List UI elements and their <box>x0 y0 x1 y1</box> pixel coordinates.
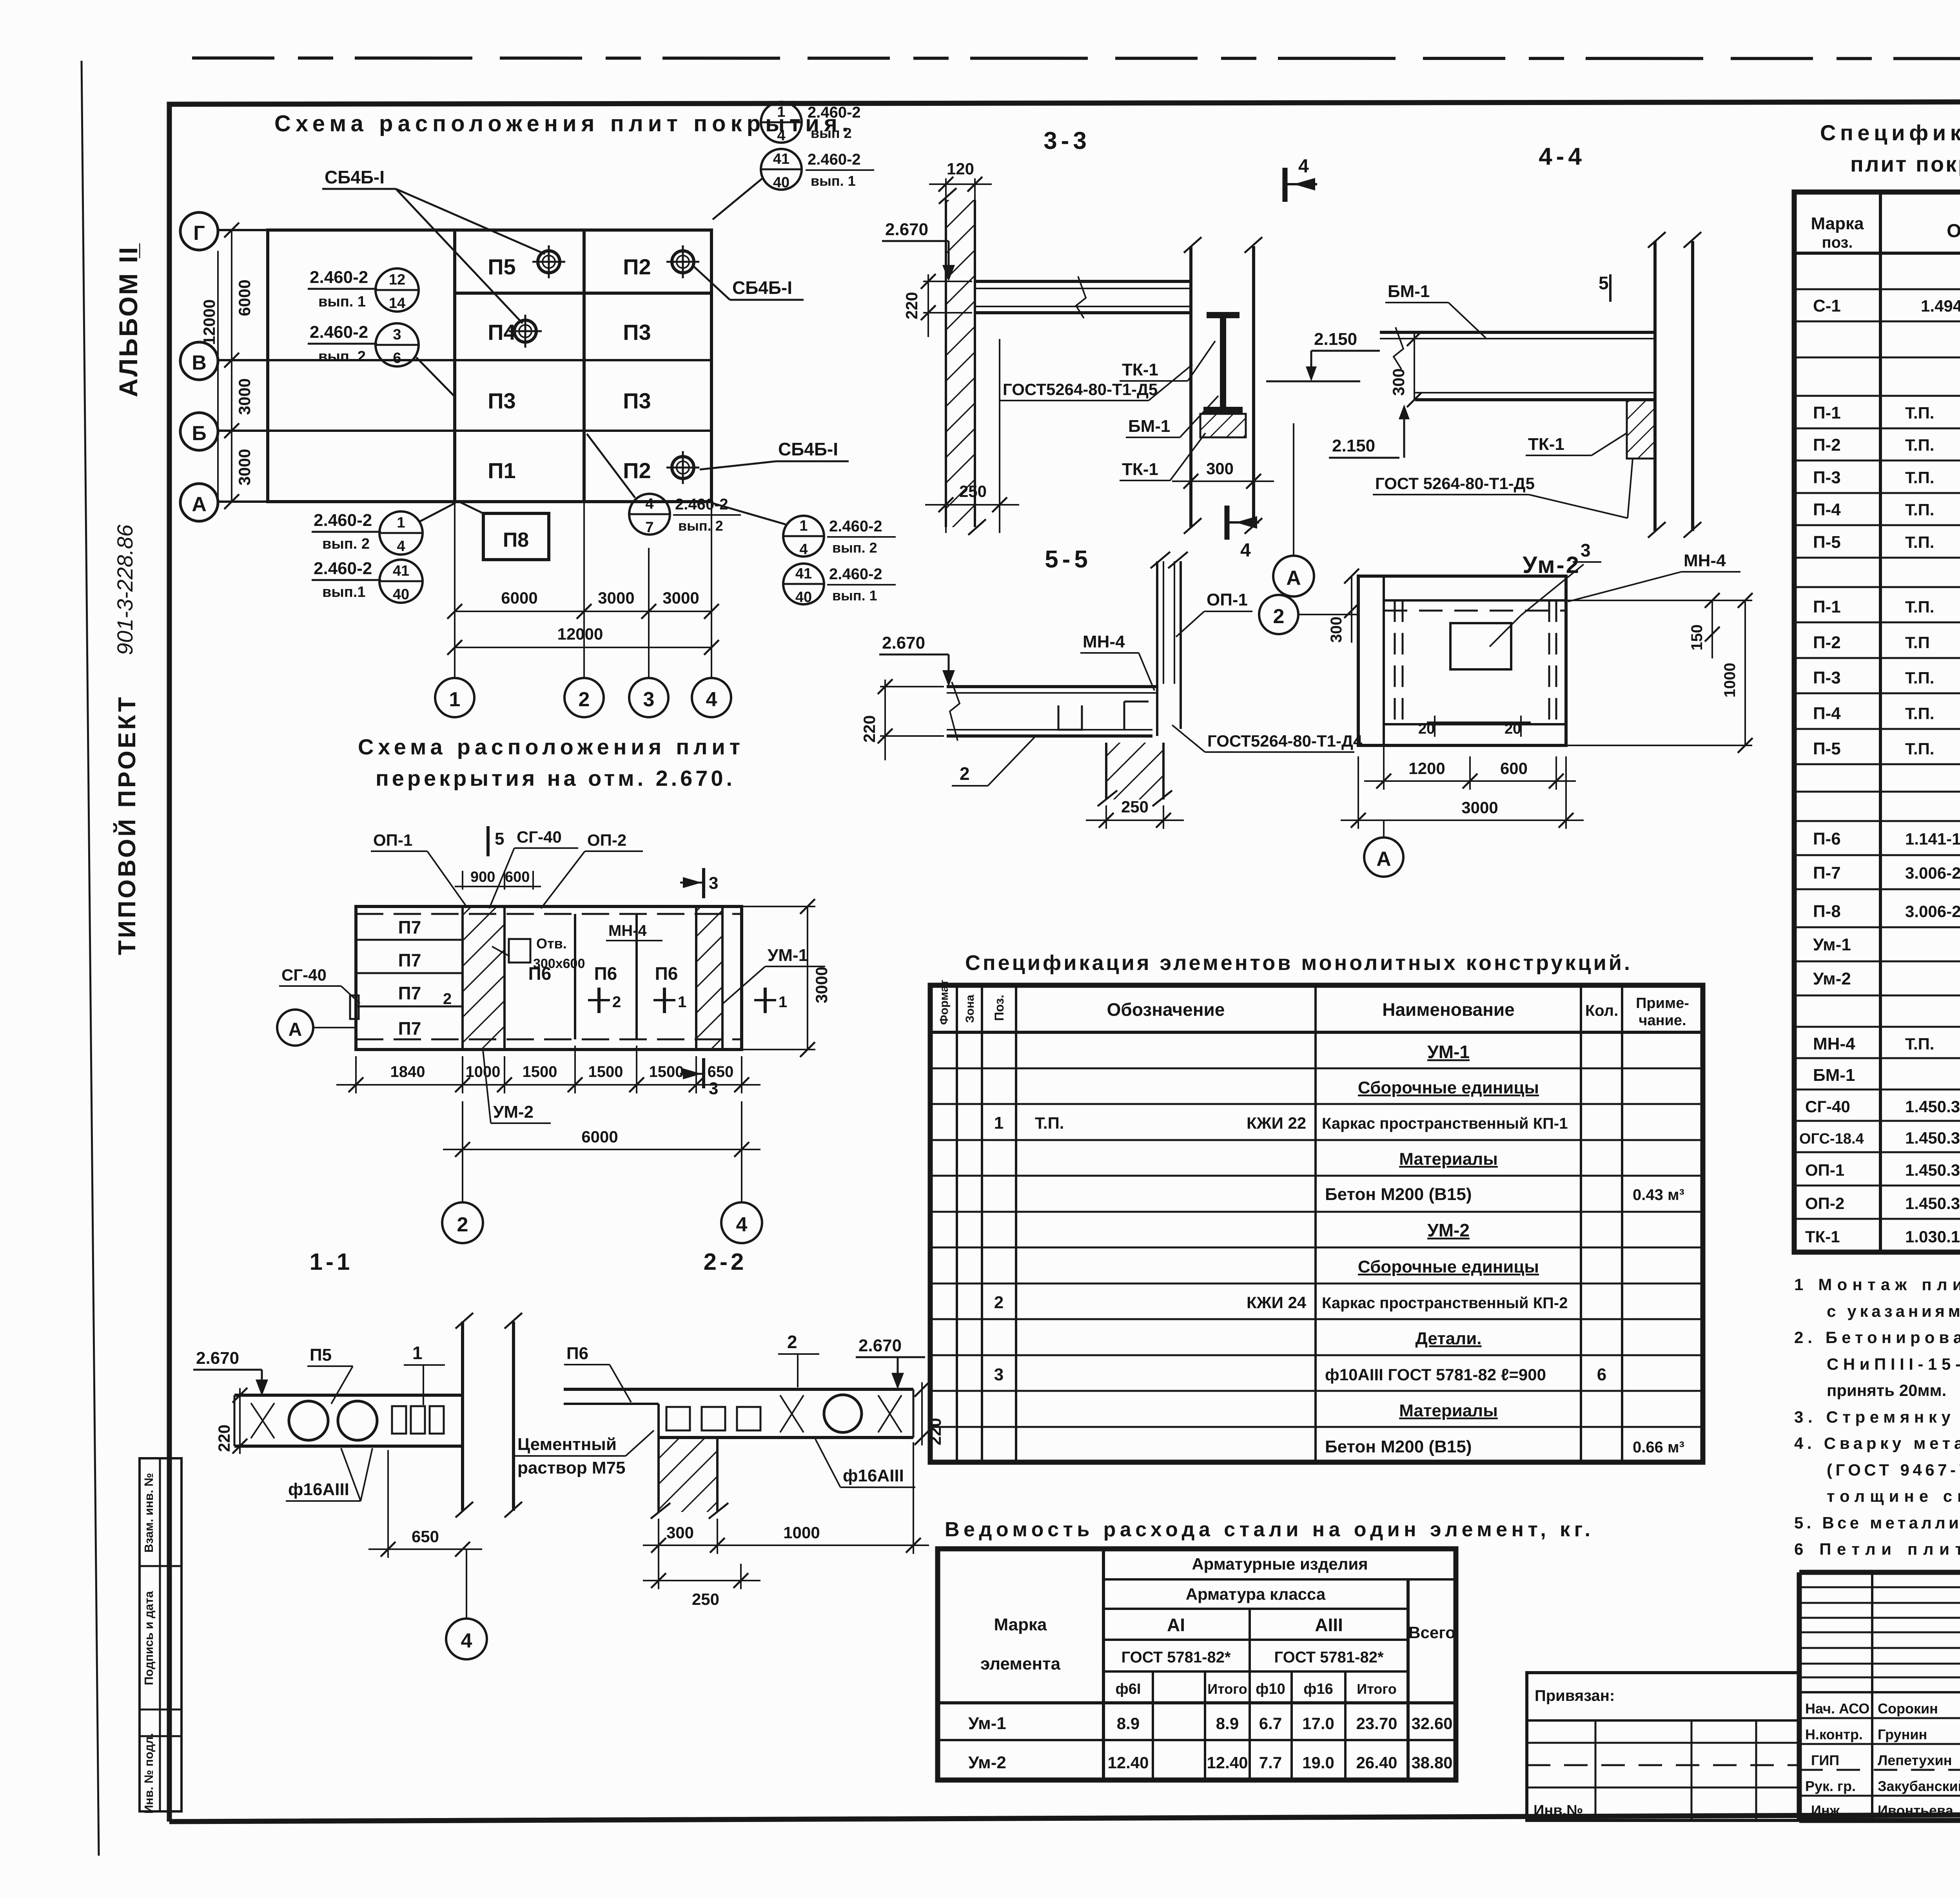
svg-text:Н.контр.: Н.контр. <box>1805 1726 1863 1742</box>
svg-text:41: 41 <box>795 566 812 582</box>
svg-text:4: 4 <box>706 688 717 711</box>
П6 labels <box>528 963 678 984</box>
svg-text:П7: П7 <box>398 1018 421 1039</box>
svg-text:8.9: 8.9 <box>1117 1714 1140 1733</box>
svg-text:П5: П5 <box>488 254 515 279</box>
svg-text:П7: П7 <box>398 950 421 970</box>
label П6 (2-2) <box>564 1344 631 1402</box>
svg-text:1: 1 <box>994 1113 1004 1133</box>
anchor symbol in П4 <box>509 315 542 348</box>
svg-text:Рук. гр.: Рук. гр. <box>1805 1778 1856 1794</box>
svg-text:2: 2 <box>960 763 970 784</box>
svg-text:П1: П1 <box>488 458 515 483</box>
svg-text:2.460-2: 2.460-2 <box>808 104 861 121</box>
svg-text:1: 1 <box>449 688 461 711</box>
label ГОСТ5264-80-Т1-Д4 (5-5) <box>1172 725 1363 752</box>
svg-text:АI: АI <box>1167 1615 1185 1635</box>
svg-text:Т.П: Т.П <box>1905 633 1930 652</box>
svg-text:Ум-1: Ум-1 <box>1813 935 1851 954</box>
svg-text:П-5: П-5 <box>1813 533 1841 552</box>
section mark 3 right bottom <box>680 1058 718 1098</box>
callout СБ4Б-I bottom right <box>700 439 849 470</box>
svg-text:2.150: 2.150 <box>1332 436 1375 455</box>
svg-text:ОП-1: ОП-1 <box>1805 1161 1844 1179</box>
svg-text:17.0: 17.0 <box>1302 1714 1334 1733</box>
svg-text:СГ-40: СГ-40 <box>281 966 327 984</box>
svg-text:С-1: С-1 <box>1813 296 1841 315</box>
svg-text:Б: Б <box>192 422 206 445</box>
plate column line 1 <box>453 230 456 502</box>
svg-text:МН-4: МН-4 <box>1083 632 1125 651</box>
svg-text:40: 40 <box>795 589 812 605</box>
plan 2 outline <box>356 906 742 1050</box>
svg-text:Сорокин: Сорокин <box>1878 1700 1938 1717</box>
svg-text:4: 4 <box>461 1630 472 1652</box>
svg-text:12000: 12000 <box>200 299 218 345</box>
svg-text:П-2: П-2 <box>1813 633 1841 652</box>
svg-text:СГ-40: СГ-40 <box>1805 1097 1850 1116</box>
slab (3-3) <box>975 276 1191 318</box>
section 1-1 title <box>310 1249 353 1275</box>
svg-text:Т.П.: Т.П. <box>1905 436 1934 454</box>
callout bottom-right pair (1|4)/(41|40) <box>713 503 896 605</box>
П8 box below А <box>461 502 549 560</box>
svg-text:3: 3 <box>709 874 718 893</box>
svg-text:Ум-2: Ум-2 <box>1813 969 1851 988</box>
svg-text:Нач. АСО: Нач. АСО <box>1805 1700 1869 1717</box>
svg-text:ГОСТ 5781-82*: ГОСТ 5781-82* <box>1274 1649 1383 1666</box>
svg-text:4: 4 <box>397 538 405 555</box>
label ф16АIII (1-1) <box>286 1448 372 1501</box>
svg-text:ф16: ф16 <box>1303 1681 1333 1697</box>
callout СБ4Б-I top <box>322 167 545 323</box>
svg-text:СБ4Б-I: СБ4Б-I <box>778 439 838 459</box>
svg-text:Кол.: Кол. <box>1585 1002 1618 1019</box>
left margin vertical text: 901-3-228.86 cursive <box>113 524 137 655</box>
axis line А <box>219 500 711 503</box>
mono table rows <box>994 1042 1684 1456</box>
svg-text:Каркас пространственный КП-1: Каркас пространственный КП-1 <box>1322 1115 1568 1132</box>
svg-text:П-7: П-7 <box>1813 863 1841 883</box>
level 2.670 (5-5) <box>879 633 955 687</box>
svg-text:0.66 м³: 0.66 м³ <box>1633 1439 1684 1456</box>
svg-text:3.006-2: 3.006-2 <box>1905 864 1960 882</box>
label ТК-1 upper (3-3) <box>1120 341 1215 381</box>
svg-text:Привязан:: Привязан: <box>1535 1687 1615 1704</box>
svg-text:ГОСТ 5264-80-Т1-Д5: ГОСТ 5264-80-Т1-Д5 <box>1375 474 1535 493</box>
svg-text:ТК-1: ТК-1 <box>1122 360 1158 379</box>
svg-text:КЖИ 24: КЖИ 24 <box>1247 1293 1307 1312</box>
svg-text:ф6I: ф6I <box>1116 1681 1141 1697</box>
svg-text:2.150: 2.150 <box>1314 330 1357 349</box>
svg-text:П-4: П-4 <box>1813 704 1841 723</box>
УМ-2 label bottom <box>483 1050 551 1123</box>
hatched pier (5-5) <box>1098 743 1172 806</box>
svg-text:Т.П.: Т.П. <box>1905 533 1934 551</box>
svg-text:6: 6 <box>1597 1365 1606 1384</box>
sheet outer dashed top edge <box>192 58 1960 59</box>
left dimension chain 6000/3000/3000 <box>200 223 254 509</box>
hatched pier (2-2) <box>651 1404 728 1519</box>
svg-text:П-5: П-5 <box>1813 739 1841 758</box>
svg-text:2: 2 <box>1273 605 1285 628</box>
svg-text:40: 40 <box>773 174 789 191</box>
svg-text:2.460-2: 2.460-2 <box>314 511 372 530</box>
svg-text:901-3-228.86: 901-3-228.86 <box>113 524 137 655</box>
svg-text:8.9: 8.9 <box>1216 1714 1239 1733</box>
svg-text:П5: П5 <box>310 1345 332 1365</box>
svg-text:вып. 1: вып. 1 <box>811 173 856 189</box>
svg-text:19.0: 19.0 <box>1302 1753 1334 1772</box>
svg-text:Обозначение: Обозначение <box>1107 999 1225 1020</box>
slab and beam (4-4) <box>1380 327 1655 459</box>
dim 6000 plan2 <box>443 1101 760 1158</box>
svg-text:Марка: Марка <box>994 1615 1047 1634</box>
svg-text:А: А <box>1286 567 1301 589</box>
svg-text:1-1: 1-1 <box>310 1249 353 1275</box>
svg-text:П-2: П-2 <box>1813 435 1841 455</box>
svg-text:ТК-1: ТК-1 <box>1528 435 1564 454</box>
svg-text:вып. 2: вып. 2 <box>832 540 877 556</box>
axis line В <box>219 359 711 361</box>
svg-text:УМ-2: УМ-2 <box>1427 1220 1470 1240</box>
svg-text:650: 650 <box>708 1063 734 1080</box>
svg-text:2.460-2: 2.460-2 <box>829 518 882 535</box>
axis circle Б <box>180 413 218 450</box>
axis line Б <box>219 430 711 432</box>
svg-text:вып. 1: вып. 1 <box>832 587 877 604</box>
plate row divider П5/П4 <box>455 292 711 295</box>
svg-text:вып 2: вып 2 <box>811 125 852 141</box>
label П5 (1-1) <box>307 1345 353 1404</box>
svg-text:4: 4 <box>736 1213 748 1236</box>
axis leader lines down to circles <box>455 502 711 678</box>
svg-text:38.80: 38.80 <box>1411 1753 1452 1772</box>
Ум-2 plan outline <box>1358 576 1566 745</box>
svg-text:Наименование: Наименование <box>1382 999 1514 1020</box>
svg-text:6: 6 <box>393 350 401 366</box>
label ТК-1 (4-4) <box>1526 433 1627 455</box>
svg-text:ТК-1: ТК-1 <box>1805 1227 1840 1246</box>
svg-text:220: 220 <box>215 1425 233 1452</box>
svg-text:2.670: 2.670 <box>882 633 925 653</box>
svg-text:3. Стремянку СГ.40 укорот: 3. Стремянку СГ.40 укоротить по месту на… <box>1794 1408 1960 1426</box>
svg-text:П-3: П-3 <box>1813 668 1841 687</box>
title block outer <box>1799 1252 1960 1820</box>
section mark 4 bottom <box>1227 506 1259 561</box>
label ГОСТ5264-80-Т1-Д5 (4-4) <box>1373 459 1633 518</box>
svg-text:П8: П8 <box>503 529 529 551</box>
svg-text:вып. 2: вып. 2 <box>318 348 366 365</box>
dim 220 (2-2) <box>915 1382 944 1445</box>
svg-text:3000: 3000 <box>812 967 831 1003</box>
label 1 (1-1) <box>404 1343 445 1405</box>
axis circle 2 plan2 <box>442 1158 483 1243</box>
svg-text:П3: П3 <box>623 320 651 344</box>
svg-text:2: 2 <box>787 1332 797 1352</box>
svg-text:Сборочные единицы: Сборочные единицы <box>1358 1078 1539 1097</box>
svg-text:МН-4: МН-4 <box>608 922 647 939</box>
svg-text:300x600: 300x600 <box>533 956 585 971</box>
svg-text:6000: 6000 <box>501 589 537 607</box>
svg-text:2.460-2: 2.460-2 <box>310 268 368 287</box>
dims 300 1000 250 (2-2) <box>643 1442 929 1608</box>
svg-text:3: 3 <box>709 1079 718 1098</box>
svg-text:Лепетухин: Лепетухин <box>1878 1752 1952 1768</box>
plate column line 2 <box>583 230 586 502</box>
svg-text:ф16АIII: ф16АIII <box>843 1466 904 1485</box>
svg-text:3-3: 3-3 <box>1044 127 1091 154</box>
label БМ-1 (4-4) <box>1385 282 1486 338</box>
axis circle 4 <box>692 678 731 717</box>
Привязан box <box>1527 1673 1799 1820</box>
svg-text:2.460-2: 2.460-2 <box>314 559 372 578</box>
svg-text:П-4: П-4 <box>1813 500 1841 519</box>
svg-text:Грунин: Грунин <box>1878 1726 1927 1742</box>
label ОП-1 (5-5) <box>1176 590 1252 637</box>
callout flag 2.460-2 вып.1 (12|14) <box>308 268 419 312</box>
plan 2 title line 2 <box>376 766 734 790</box>
level 2.670 (1-1) <box>193 1349 268 1396</box>
svg-text:2: 2 <box>457 1213 468 1236</box>
svg-text:5: 5 <box>495 829 504 848</box>
slab П6 thin (2-2) <box>564 1389 913 1438</box>
opening Отв 300x600 <box>492 935 585 971</box>
column (1-1) <box>456 1313 522 1517</box>
svg-text:П7: П7 <box>398 983 421 1003</box>
СГ-40 label left <box>279 966 360 1019</box>
svg-text:2: 2 <box>612 993 621 1011</box>
svg-text:ГОСТ 5781-82*: ГОСТ 5781-82* <box>1121 1649 1230 1666</box>
section flags T2 T1 inside plan2 <box>588 988 787 1013</box>
svg-text:Арматура класса: Арматура класса <box>1186 1585 1326 1603</box>
section mark 3 right top <box>680 868 718 898</box>
dim 300 left (Ум-2 plan) <box>1328 569 1359 643</box>
svg-text:2.460-2: 2.460-2 <box>310 323 368 342</box>
svg-text:вып.1: вып.1 <box>322 584 365 600</box>
svg-text:12.40: 12.40 <box>1107 1753 1149 1772</box>
svg-text:7: 7 <box>645 519 653 536</box>
svg-text:Каркас пространственный КП-2: Каркас пространственный КП-2 <box>1322 1294 1568 1312</box>
svg-text:Схема расположения плит: Схема расположения плит <box>358 734 742 759</box>
svg-text:300: 300 <box>1389 368 1408 396</box>
sheet outer thin border left <box>82 61 99 1856</box>
svg-text:БМ-1: БМ-1 <box>1813 1066 1855 1085</box>
svg-text:СБ4Б-I: СБ4Б-I <box>325 167 385 187</box>
svg-text:Инв.№: Инв.№ <box>1534 1802 1583 1819</box>
svg-text:перекрытия на отм. 2.670.: перекрытия на отм. 2.670. <box>376 766 734 790</box>
label Цементный раствор М75 (2-2) <box>515 1430 654 1477</box>
svg-text:П-6: П-6 <box>1813 829 1841 848</box>
svg-text:3: 3 <box>1581 540 1591 560</box>
svg-text:Т.П.: Т.П. <box>1905 468 1934 487</box>
anchor symbol in П2 top <box>666 245 699 278</box>
big table grid <box>1794 192 1960 1252</box>
svg-text:ОП-2: ОП-2 <box>1805 1194 1844 1213</box>
svg-text:1: 1 <box>799 518 808 534</box>
svg-text:Сборочные единицы: Сборочные единицы <box>1358 1257 1539 1276</box>
svg-text:300: 300 <box>1206 459 1234 478</box>
left stamp strip <box>140 1458 181 1814</box>
circled 2 with leader <box>1259 595 1358 634</box>
slab (5-5) <box>947 682 1157 741</box>
svg-text:ф10АIII ГОСТ 5781-82 ℓ=900: ф10АIII ГОСТ 5781-82 ℓ=900 <box>1325 1365 1546 1384</box>
svg-text:3: 3 <box>393 326 401 343</box>
svg-text:120: 120 <box>947 160 974 178</box>
svg-text:4: 4 <box>799 541 808 558</box>
axis circle 2 <box>564 678 604 717</box>
svg-text:7.7: 7.7 <box>1259 1753 1282 1772</box>
callout СБ4Б-I right <box>694 266 804 300</box>
top leaders ОП-1 / 5 / СГ-40 / ОП-2 <box>371 826 643 908</box>
svg-text:4: 4 <box>1298 156 1309 177</box>
svg-text:Т.П.: Т.П. <box>1905 500 1934 519</box>
dim 3000 (Ум-2 plan) <box>1341 756 1584 829</box>
section mark 4 top <box>1285 156 1317 202</box>
svg-text:Бетон М200 (В15): Бетон М200 (В15) <box>1325 1185 1472 1204</box>
svg-text:ТИПОВОЙ ПРОЕКТ: ТИПОВОЙ ПРОЕКТ <box>113 695 141 955</box>
svg-text:300: 300 <box>1328 616 1345 643</box>
label 2 (2-2) <box>778 1332 819 1387</box>
svg-text:150: 150 <box>1688 624 1706 651</box>
circled А (Ум-2 plan) <box>1364 820 1403 877</box>
svg-text:Материалы: Материалы <box>1399 1149 1498 1169</box>
svg-text:32.60: 32.60 <box>1411 1714 1452 1733</box>
svg-text:2: 2 <box>994 1293 1004 1312</box>
svg-text:Закубанский: Закубанский <box>1878 1778 1960 1794</box>
label ГОСТ5264-80-Т1-Д5 (3-3) <box>1000 364 1192 401</box>
label МН-4 (5-5) <box>1080 632 1154 691</box>
svg-text:3: 3 <box>994 1365 1004 1384</box>
svg-text:ГОСТ5264-80-Т1-Д4: ГОСТ5264-80-Т1-Д4 <box>1207 732 1363 750</box>
dim 120 (3-3) <box>929 160 992 241</box>
bottom dim chain plan2 <box>336 1046 760 1093</box>
svg-text:1200: 1200 <box>1408 759 1445 778</box>
svg-text:А: А <box>192 493 207 516</box>
svg-text:П-8: П-8 <box>1813 902 1841 921</box>
svg-text:Т.П.: Т.П. <box>1905 598 1934 616</box>
svg-text:1: 1 <box>779 993 787 1011</box>
svg-text:300: 300 <box>666 1523 694 1542</box>
svg-text:элемента: элемента <box>980 1654 1061 1673</box>
section 4-4 title <box>1539 143 1586 170</box>
svg-text:ОП-1: ОП-1 <box>373 831 412 849</box>
svg-text:1500: 1500 <box>523 1063 557 1080</box>
dim 3000 right <box>742 899 831 1057</box>
dim 220 (3-3) <box>902 274 972 337</box>
svg-text:Т.П.: Т.П. <box>1035 1114 1064 1132</box>
section 2-2 title <box>704 1249 747 1275</box>
svg-text:1.141-1: 1.141-1 <box>1905 830 1960 848</box>
big table rows <box>1799 259 1960 1246</box>
svg-text:650: 650 <box>412 1527 439 1546</box>
svg-text:ф10: ф10 <box>1256 1681 1285 1697</box>
mono table title <box>965 951 1632 975</box>
svg-text:ОП-2: ОП-2 <box>587 831 626 849</box>
axis circle А <box>180 484 218 521</box>
svg-text:12000: 12000 <box>557 625 603 643</box>
svg-text:1000: 1000 <box>783 1523 820 1542</box>
svg-text:Арматурные изделия: Арматурные изделия <box>1192 1555 1368 1573</box>
svg-text:МН-4: МН-4 <box>1813 1034 1855 1053</box>
svg-text:12.40: 12.40 <box>1207 1753 1248 1772</box>
axis circle 3 <box>629 678 668 717</box>
svg-text:3: 3 <box>643 688 655 711</box>
svg-text:2.670: 2.670 <box>196 1349 239 1368</box>
dim 250 (3-3) <box>925 482 1019 533</box>
Ум-2 subtitle <box>1523 552 1581 578</box>
circled А left of plan2 <box>277 1010 356 1046</box>
svg-text:Спецификация элементов мон: Спецификация элементов монолитных констр… <box>965 951 1632 975</box>
dim 220 (1-1) <box>215 1388 247 1454</box>
svg-text:4-4: 4-4 <box>1539 143 1586 170</box>
left margin vertical text: АЛЬБОМ II <box>114 243 143 397</box>
svg-text:Т.П.: Т.П. <box>1905 669 1934 687</box>
svg-text:А: А <box>1376 848 1391 870</box>
svg-text:3000: 3000 <box>1461 798 1498 817</box>
callout flag 2.460-2 вып.2 (3|6) <box>308 323 455 397</box>
svg-text:3000: 3000 <box>235 378 254 415</box>
dim 220 (5-5) <box>860 679 944 760</box>
svg-text:Отв.: Отв. <box>536 935 567 952</box>
steel table title <box>945 1518 1592 1541</box>
svg-text:П6: П6 <box>655 963 678 984</box>
svg-text:220: 220 <box>860 715 878 743</box>
svg-text:2-2: 2-2 <box>704 1249 747 1275</box>
mono table headers <box>938 980 1689 1029</box>
anchor symbol in П5 <box>532 245 565 278</box>
svg-text:Всего: Всего <box>1408 1623 1455 1642</box>
plan outer rectangle <box>268 230 711 502</box>
dim 150/1000 right (Ум-2 plan) <box>1566 593 1753 753</box>
anchor symbol in П2 bottom <box>666 451 699 484</box>
svg-text:вып. 2: вып. 2 <box>322 536 370 552</box>
svg-text:1: 1 <box>412 1343 423 1363</box>
label БМ-1 (3-3) <box>1126 396 1218 437</box>
svg-text:Ивонтьева: Ивонтьева <box>1878 1802 1954 1818</box>
plan title <box>274 111 851 136</box>
svg-text:1: 1 <box>777 104 785 120</box>
big table headers <box>1811 214 1960 251</box>
svg-text:Инж.: Инж. <box>1811 1802 1844 1818</box>
svg-text:900: 900 <box>470 869 495 885</box>
svg-text:Взам. инв. №: Взам. инв. № <box>142 1473 156 1552</box>
svg-text:АЛЬБОМ II̲: АЛЬБОМ II̲ <box>114 243 143 397</box>
svg-text:1.030.1-1: 1.030.1-1 <box>1905 1227 1960 1246</box>
leader to circled А (3-3) <box>1273 423 1314 596</box>
svg-text:5-5: 5-5 <box>1045 546 1092 573</box>
svg-text:ОГС-18.4: ОГС-18.4 <box>1799 1131 1864 1147</box>
svg-text:А: А <box>289 1019 302 1040</box>
svg-text:41: 41 <box>773 151 789 167</box>
svg-text:Г: Г <box>193 222 205 245</box>
svg-text:2.670: 2.670 <box>858 1336 902 1355</box>
svg-text:5: 5 <box>1599 273 1609 293</box>
svg-text:раствор М75: раствор М75 <box>517 1458 625 1477</box>
level 2.150 (4-4) <box>1329 404 1410 458</box>
svg-text:2.460-2: 2.460-2 <box>808 151 861 168</box>
svg-text:Итого: Итого <box>1207 1681 1247 1697</box>
svg-text:БМ-1: БМ-1 <box>1128 417 1170 436</box>
svg-text:П-1: П-1 <box>1813 597 1841 616</box>
УМ-1 label right <box>723 946 825 1003</box>
dim 300 (3-3) <box>1172 451 1274 490</box>
svg-text:4: 4 <box>777 127 785 144</box>
svg-text:вып. 1: вып. 1 <box>318 294 366 310</box>
level mark 2.670 (3-3) <box>882 220 955 281</box>
axis circle 1 <box>435 678 474 717</box>
svg-text:Обозначение: Обозначение <box>1947 221 1960 241</box>
